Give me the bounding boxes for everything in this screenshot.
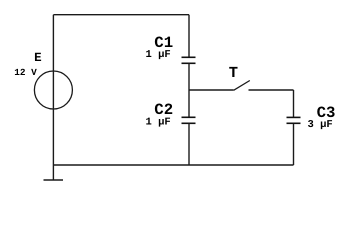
wire bottom (ground net) [53, 164, 293, 166]
switch T (open blade) [229, 64, 250, 90]
wire C3 bottom stub [293, 124, 295, 165]
wire between C1 and C2 [188, 64, 190, 117]
wire C2 bottom stub [188, 124, 190, 165]
capacitor C1 1 uF [146, 34, 196, 63]
wire top (node between E + and C1 top) [53, 14, 189, 16]
svg-text:1 μF: 1 μF [146, 117, 171, 129]
svg-text:T: T [229, 64, 238, 82]
svg-text:3 μF: 3 μF [308, 119, 333, 131]
ground [44, 179, 64, 181]
wire middle left (node C1/C2 to switch) [189, 89, 234, 91]
wire C1/C2 branch upper stub [188, 15, 190, 57]
wire C3 branch upper stub [293, 90, 295, 117]
svg-text:1 μF: 1 μF [146, 49, 171, 61]
capacitor C2 1 uF [146, 101, 196, 129]
capacitor C3 3 uF [287, 104, 336, 131]
wire left vertical through source [52, 15, 54, 180]
voltage source E 12 V [14, 51, 72, 109]
svg-text:E: E [34, 51, 42, 65]
wire middle right (switch to C3 top) [249, 89, 294, 91]
svg-text:12 V: 12 V [14, 67, 37, 78]
